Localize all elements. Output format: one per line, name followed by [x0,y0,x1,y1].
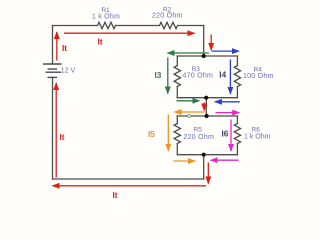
wire box1 left lower stub [176,87,178,98]
current arrow I3 down left of box1 [167,58,169,94]
current arrow I4 down inside box1 right [229,60,231,94]
wire top horizontal middle segment [117,25,160,27]
current arrow I5 left along box2 top [175,111,205,113]
wire box2 bottom [177,154,237,156]
current arrow It bottom horizontal [53,185,207,187]
resistor R2 [160,22,178,28]
wire box2 top [177,115,237,117]
resistor R6 [234,124,240,144]
svg-text:It: It [113,190,118,200]
current arrow It up left-bottom [55,83,57,178]
node C junction dot [205,114,209,118]
current arrow It top horizontal [64,32,195,34]
node A junction dot [202,54,206,58]
current arrow I4 right along box1 top [212,50,239,52]
wire box2 right upper stub [236,116,238,124]
wire box2 left upper stub [176,116,178,124]
wire left vertical lower [52,77,54,179]
node D junction dot [202,153,206,157]
open circle marker on box2 top wire [188,115,191,118]
battery B1 12V [43,64,62,77]
svg-text:220 Ohm: 220 Ohm [184,134,215,141]
wire top horizontal right segment [179,25,204,27]
wire right vertical drop to node A [203,26,205,57]
wire box1 right lower stub [236,87,238,98]
wire left vertical upper [52,26,54,65]
svg-text:470 Ohm: 470 Ohm [183,73,214,80]
svg-text:12 V: 12 V [61,68,76,75]
node B junction dot [204,96,208,100]
current arrow I3 right into node B [177,100,200,102]
current arrow It node B to node C [203,103,205,111]
current arrow I6 left into node D [211,159,239,161]
wire box1 left upper stub [176,56,178,66]
svg-text:R6: R6 [252,127,261,134]
current arrow I5 down left of box2 [167,115,169,151]
wire top horizontal left segment [53,25,98,27]
svg-text:220 Ohm: 220 Ohm [152,13,183,20]
current arrow I6 right along box2 top [216,112,240,114]
wire bottom connector node D down [203,155,205,179]
svg-text:It: It [62,43,67,53]
current arrow It up left-top [56,32,58,61]
current arrow I3 left along box1 top [168,52,210,54]
current arrow I5 right into node D [174,160,196,162]
wire middle connector node B to node C [205,98,207,116]
svg-text:I5: I5 [148,129,155,139]
wire bottom horizontal [53,178,204,180]
svg-text:I6: I6 [222,129,229,139]
svg-text:1 k Ohm: 1 k Ohm [244,134,271,141]
resistor R5 [174,124,180,144]
resistor R3 [174,66,180,87]
resistor R1 [98,22,116,28]
svg-text:I3: I3 [155,70,162,80]
current arrow It down into node A [210,35,212,51]
wire box2 left lower stub [176,144,178,155]
svg-text:It: It [60,132,65,142]
current arrow It down from node D [207,163,209,184]
wire box1 top [177,55,237,57]
wire box1 right upper stub [236,56,238,66]
svg-text:1 k Ohm: 1 k Ohm [92,13,120,20]
current arrow I6 down inside box2 right [230,120,232,152]
wire box1 bottom [177,97,237,99]
resistor R4 [234,66,240,87]
wire box2 right lower stub [236,144,238,155]
svg-text:It: It [98,36,103,46]
svg-text:R5: R5 [194,127,203,134]
svg-text:100 Ohm: 100 Ohm [243,73,274,80]
svg-text:I4: I4 [219,69,226,79]
current arrow I4 left into node B [215,101,240,103]
